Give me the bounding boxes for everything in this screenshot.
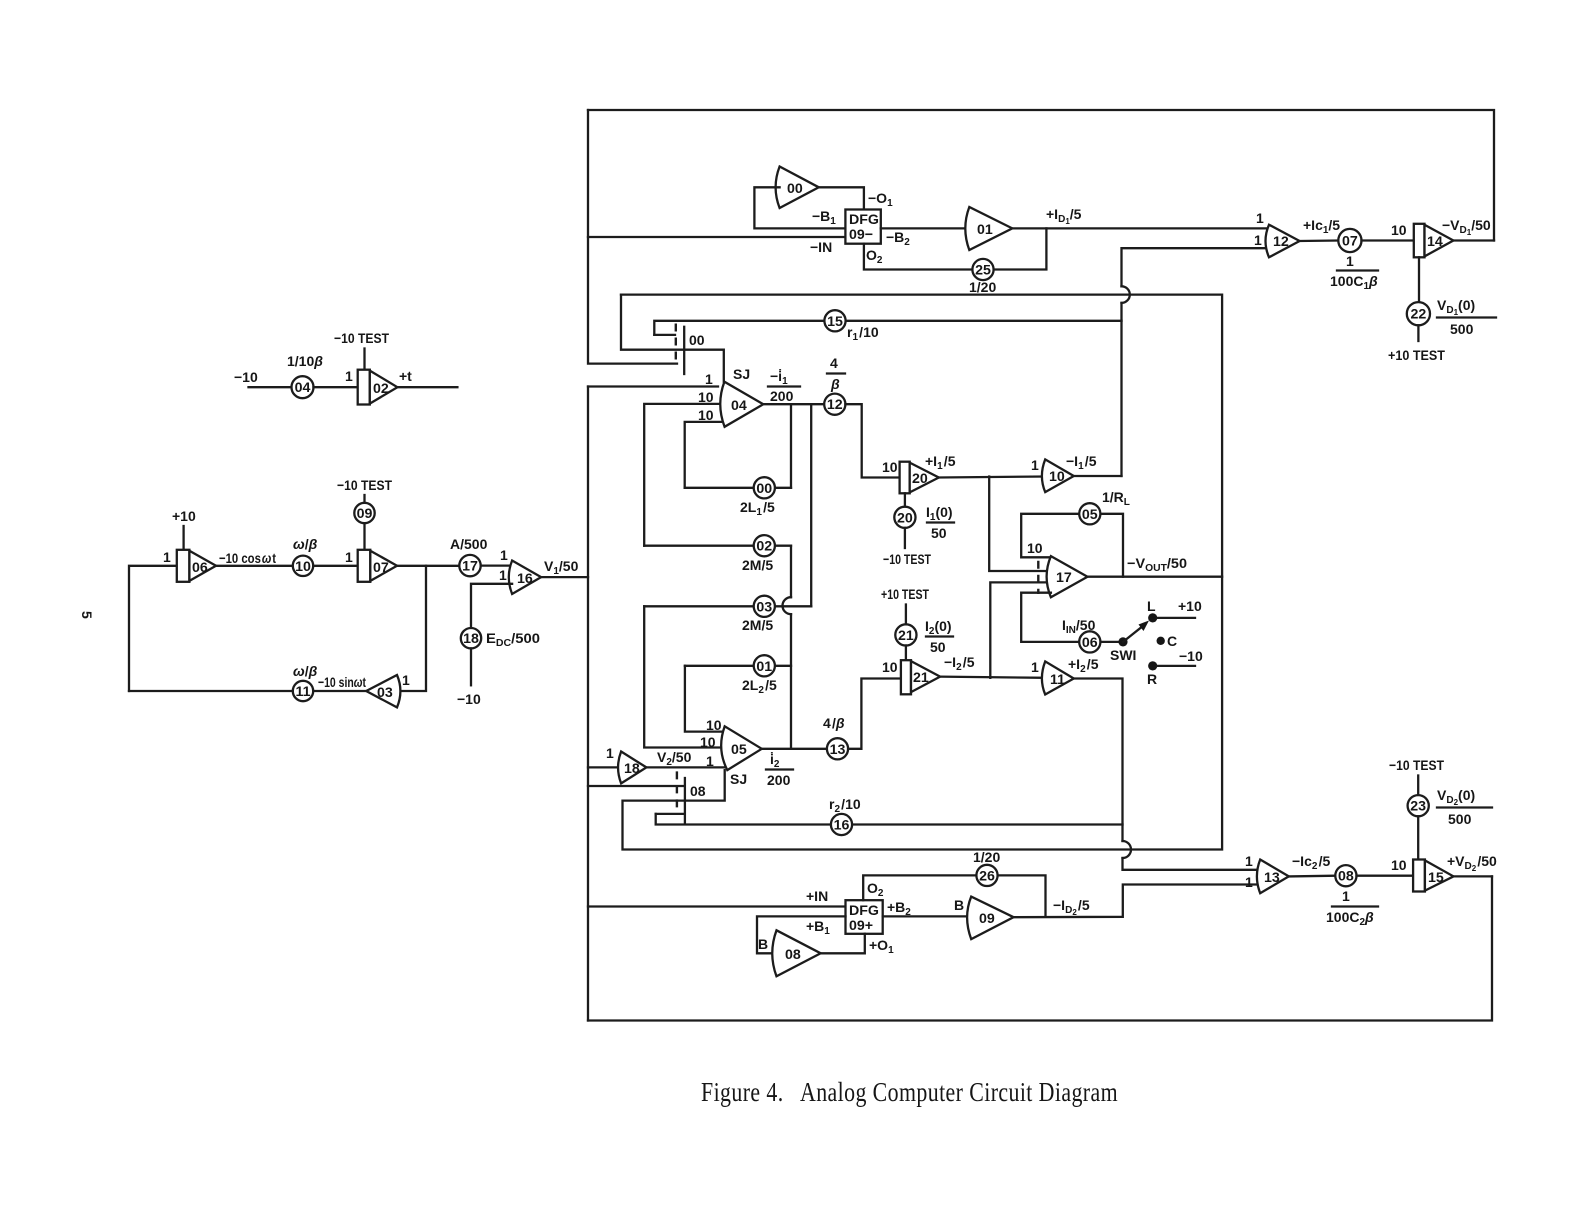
wire comb-08 branch from trunk bbox=[588, 785, 684, 787]
svg-text:−10 TEST: −10 TEST bbox=[334, 330, 389, 346]
svg-text:+10: +10 bbox=[1178, 598, 1202, 614]
amplifier 00 bbox=[776, 167, 819, 209]
integrator 14 bbox=[1414, 224, 1454, 257]
svg-text:25: 25 bbox=[975, 263, 991, 279]
node R throw contact of SW1 (-10) bbox=[1147, 648, 1203, 687]
svg-text:16: 16 bbox=[517, 571, 533, 587]
svg-text:V1/50: V1/50 bbox=[544, 558, 579, 577]
wire integrator 14 IC terminal down to pot 22 bbox=[1418, 257, 1420, 302]
wire DFG +B1 feedback to amp 08 input bbox=[757, 916, 846, 953]
potentiometer 16 (r2/10) bbox=[829, 796, 861, 835]
svg-text:2L2 /5: 2L2 /5 bbox=[742, 677, 777, 696]
svg-text:r2 /10: r2 /10 bbox=[829, 796, 861, 815]
node -10 TEST below pot 20 bbox=[883, 528, 931, 567]
svg-text:1: 1 bbox=[1346, 253, 1354, 269]
potentiometer 06 (I IN/50) bbox=[1062, 617, 1100, 653]
svg-text:06: 06 bbox=[192, 560, 208, 576]
svg-text:+B1: +B1 bbox=[806, 918, 830, 937]
wire left trunk upper segment (V1/50 net, upper) bbox=[588, 110, 677, 364]
svg-text:+I1 /5: +I1 /5 bbox=[925, 453, 956, 472]
svg-text:500: 500 bbox=[1448, 811, 1472, 827]
potentiometer 02 (2M/5) bbox=[644, 535, 791, 573]
svg-text:14: 14 bbox=[1427, 234, 1443, 250]
node -10 sin wt bbox=[313, 674, 366, 691]
svg-text:SWI: SWI bbox=[1110, 647, 1136, 663]
svg-text:+B2: +B2 bbox=[887, 899, 911, 918]
svg-text:50: 50 bbox=[931, 525, 947, 541]
svg-text:1: 1 bbox=[345, 368, 353, 384]
svg-text:21: 21 bbox=[898, 628, 914, 644]
integrator 02 bbox=[345, 368, 397, 405]
node -I2/5 output of integrator 21 to amp 11 bbox=[940, 654, 1045, 678]
node -10 TEST above pot 09 bbox=[337, 477, 392, 503]
svg-text:10: 10 bbox=[295, 559, 311, 575]
node +Ic1/5 output of amp12 bbox=[1300, 217, 1341, 241]
wire amp18 input branch from trunk bbox=[588, 766, 621, 768]
svg-text:1: 1 bbox=[606, 745, 614, 761]
svg-text:−i̇1: −i̇1 bbox=[770, 368, 788, 387]
svg-text:10: 10 bbox=[882, 459, 898, 475]
svg-text:−10: −10 bbox=[457, 691, 481, 707]
node -10 TEST above pot 23 bbox=[1389, 757, 1444, 795]
potentiometer 09 bbox=[354, 503, 374, 550]
svg-text:06: 06 bbox=[1082, 635, 1098, 651]
svg-text:100C2β: 100C2β bbox=[1326, 909, 1374, 928]
wire DFG O2 terminal up through pot 26 to -ID2/5 node bbox=[863, 875, 1045, 916]
potentiometer 26 (1/20) bbox=[973, 849, 1000, 886]
integrator 21 bbox=[882, 659, 940, 694]
svg-text:26: 26 bbox=[979, 868, 995, 884]
amplifier 04 (summing junction SJ) bbox=[698, 366, 763, 427]
svg-text:−VOUT/50: −VOUT/50 bbox=[1127, 555, 1187, 574]
svg-text:B: B bbox=[954, 897, 964, 913]
svg-text:−10 TEST: −10 TEST bbox=[337, 477, 392, 493]
node -ID2/5 output of amp09 to amp13 input 2 bbox=[1014, 885, 1261, 918]
svg-text:09: 09 bbox=[979, 911, 995, 927]
svg-text:1: 1 bbox=[1031, 457, 1039, 473]
svg-text:C: C bbox=[1167, 633, 1177, 649]
svg-text:+t: +t bbox=[399, 368, 412, 384]
amplifier 11 bbox=[1031, 659, 1074, 695]
svg-text:I2(0): I2(0) bbox=[925, 618, 952, 637]
svg-text:08: 08 bbox=[1338, 869, 1354, 885]
wire -IN branch from trunk to top DFG bbox=[588, 236, 845, 238]
svg-text:SJ: SJ bbox=[733, 366, 750, 382]
svg-text:1: 1 bbox=[1254, 232, 1262, 248]
svg-text:1/20: 1/20 bbox=[973, 849, 1000, 865]
amplifier 03 (inverter, points left) bbox=[366, 672, 410, 707]
potentiometer 01 (2L2/5) bbox=[685, 655, 791, 696]
potentiometer 17 (A/500) bbox=[450, 536, 488, 576]
wire feedback loop into integrator 06 bbox=[129, 566, 177, 691]
wire pot11 output back to feedback loop bbox=[129, 690, 293, 692]
svg-text:DFG: DFG bbox=[849, 212, 879, 228]
svg-text:−10 TEST: −10 TEST bbox=[1389, 757, 1444, 773]
wire feedback through pot 25: O2 to output node bbox=[864, 228, 1047, 269]
wire pot17 to amp16 input 1 bbox=[481, 564, 512, 566]
svg-text:1: 1 bbox=[163, 549, 171, 565]
wire amp00 output to DFG -O1 terminal bbox=[819, 187, 893, 209]
wire V-OUT rectangle loop: top edge, right edge, bottom edge, link to SJ05 bbox=[621, 295, 1222, 850]
svg-text:07: 07 bbox=[1342, 234, 1358, 250]
node -I1/5 output of amp 10 bbox=[1066, 453, 1122, 476]
svg-text:+10: +10 bbox=[172, 508, 196, 524]
svg-text:1: 1 bbox=[402, 672, 410, 688]
svg-text:08: 08 bbox=[785, 947, 801, 963]
svg-text:DFG: DFG bbox=[849, 903, 879, 919]
potentiometer 22 (VD1(0)/500) bbox=[1407, 297, 1496, 337]
node +10 TEST above pot 21 bbox=[881, 586, 929, 624]
svg-text:1: 1 bbox=[1342, 888, 1350, 904]
svg-text:+VD2 /50: +VD2 /50 bbox=[1447, 853, 1497, 873]
potentiometer 10 (w/beta) bbox=[293, 536, 318, 576]
svg-text:2M/5: 2M/5 bbox=[742, 557, 773, 573]
svg-text:1: 1 bbox=[705, 371, 713, 387]
wire r2/10 line from comb-08 to +I2/5 vertical bbox=[656, 813, 684, 815]
amplifier 17 (output amplifier) bbox=[1027, 540, 1088, 597]
svg-text:1: 1 bbox=[1245, 853, 1253, 869]
svg-text:O2: O2 bbox=[866, 247, 883, 266]
svg-text:09: 09 bbox=[357, 506, 373, 522]
wire comb-00 feed from rectangle loop down to SJ04 bbox=[621, 295, 724, 382]
potentiometer 07 (1/100C1beta) bbox=[1330, 229, 1378, 292]
svg-text:−B1: −B1 bbox=[812, 208, 836, 227]
node L throw contact of SW1 (+10) bbox=[1147, 598, 1202, 623]
svg-text:10: 10 bbox=[1049, 469, 1065, 485]
svg-text:1/RL: 1/RL bbox=[1102, 489, 1130, 508]
svg-text:00: 00 bbox=[756, 481, 772, 497]
svg-text:+O1: +O1 bbox=[869, 937, 894, 956]
svg-text:00: 00 bbox=[689, 332, 705, 348]
wire bottom border of main loop bbox=[588, 876, 1492, 1020]
potentiometer 25 (1/20) bbox=[969, 259, 996, 295]
svg-text:4: 4 bbox=[830, 355, 838, 371]
wire pot03 output down to SJ05 input 2 bbox=[644, 606, 722, 747]
wire E-DC branch into amp16 input 2 bbox=[471, 584, 512, 628]
wire integrator 07 output branch down to amp 03 bbox=[397, 566, 426, 691]
svg-text:−10 sinωt: −10 sinωt bbox=[318, 674, 366, 690]
switch SW1 pole and arm bbox=[1110, 621, 1149, 664]
svg-text:100C1β: 100C1β bbox=[1330, 273, 1378, 292]
potentiometer 23 (VD2(0)/500) bbox=[1408, 787, 1492, 827]
svg-text:−10 cos ω t: −10 cos ω t bbox=[219, 550, 276, 566]
node -VD1/50 output of integrator 14 to top border bbox=[1442, 217, 1494, 241]
wire -I2/5 branch up to amp17 input 3 bbox=[990, 582, 1051, 677]
svg-text:i̇2: i̇2 bbox=[770, 751, 780, 770]
potentiometer 08 (1/100C2beta) bbox=[1326, 865, 1378, 928]
svg-text:L: L bbox=[1147, 598, 1156, 614]
svg-text:1: 1 bbox=[345, 549, 353, 565]
svg-text:08: 08 bbox=[690, 783, 706, 799]
wire DFG +B2 output to amplifier 09 bbox=[883, 899, 972, 918]
svg-text:1: 1 bbox=[1256, 210, 1264, 226]
svg-text:10: 10 bbox=[698, 407, 714, 423]
svg-text:SJ: SJ bbox=[730, 771, 747, 787]
wire +I1/5 branch down to amp17 input 2 bbox=[989, 477, 1051, 572]
wire SJ04 input 1 branch from trunk bbox=[588, 385, 718, 387]
svg-text:12: 12 bbox=[827, 397, 843, 413]
node i2/200 output of SJ05 bbox=[762, 749, 827, 788]
svg-text:−10: −10 bbox=[234, 369, 258, 385]
svg-text:1: 1 bbox=[706, 753, 714, 769]
wire pot01 output up to SJ05 input 1 bbox=[685, 666, 725, 732]
svg-text:5: 5 bbox=[79, 611, 95, 619]
potentiometer 03 (2M/5) bbox=[644, 596, 811, 633]
svg-text:10: 10 bbox=[706, 717, 722, 733]
node -10 input to pot 04 bbox=[234, 369, 292, 387]
svg-text:05: 05 bbox=[731, 742, 747, 758]
node +10 into integrator 06 bbox=[172, 508, 196, 550]
svg-text:EDC/500: EDC/500 bbox=[486, 630, 540, 649]
svg-text:10: 10 bbox=[1027, 540, 1043, 556]
svg-text:22: 22 bbox=[1411, 307, 1427, 323]
svg-text:1: 1 bbox=[1031, 659, 1039, 675]
amplifier 18 bbox=[606, 745, 646, 783]
amplifier 05 (summing junction SJ) bbox=[700, 717, 762, 787]
amplifier 09 bbox=[954, 897, 1014, 940]
svg-text:05: 05 bbox=[1082, 507, 1098, 523]
svg-text:4 /β: 4 /β bbox=[823, 715, 845, 731]
wire pot13 output to integrator 21 bbox=[848, 679, 901, 749]
svg-text:02: 02 bbox=[756, 539, 772, 555]
wire SJ04 input 2 from pot 02 bbox=[644, 404, 719, 546]
wire pot02/pot01 feed from SJ05 output (hop over pot03 line) bbox=[790, 546, 792, 598]
svg-text:O2: O2 bbox=[867, 880, 884, 899]
svg-text:A/500: A/500 bbox=[450, 536, 488, 552]
potentiometer 04 (1/10 beta) bbox=[287, 353, 323, 398]
svg-text:10: 10 bbox=[882, 659, 898, 675]
node +t output of integrator 02 bbox=[397, 368, 457, 387]
wire -I1/5 rising to amp12 input 2 (hop over loop top edge, junction with r1 line) bbox=[1122, 248, 1270, 286]
node -VOUT/50 output of amp17 to loop right edge bbox=[1088, 555, 1223, 577]
node -10 into pot 18 bbox=[457, 648, 481, 707]
svg-text:11: 11 bbox=[296, 684, 311, 700]
node C throw contact of SW1 bbox=[1157, 633, 1178, 649]
svg-text:11: 11 bbox=[1050, 672, 1065, 688]
integrator 06 bbox=[163, 549, 216, 582]
node +I2/5 output of amp 11 (hop over loop bottom edge, down to amp13) bbox=[1068, 656, 1260, 870]
svg-text:1/10β: 1/10β bbox=[287, 353, 323, 369]
wire pot05 feedback loop from amp17 output to amp17 input 1 bbox=[1100, 514, 1123, 577]
wire left trunk lower segment (V1/50 net) bbox=[587, 387, 589, 1021]
svg-text:+IN: +IN bbox=[806, 888, 828, 904]
svg-text:+10 TEST: +10 TEST bbox=[1388, 347, 1445, 363]
wire SJ04 output branch down to pot 00 bbox=[790, 404, 792, 488]
integrator 20 bbox=[882, 459, 939, 493]
svg-text:20: 20 bbox=[912, 471, 928, 487]
svg-text:B: B bbox=[758, 936, 768, 952]
svg-text:10: 10 bbox=[1391, 857, 1407, 873]
amplifier 12 bbox=[1254, 210, 1300, 257]
svg-text:1: 1 bbox=[499, 567, 507, 583]
svg-text:R: R bbox=[1147, 671, 1157, 687]
svg-text:10: 10 bbox=[700, 734, 716, 750]
wire pot23 down to integrator 15 IC terminal bbox=[1417, 816, 1419, 859]
svg-text:13: 13 bbox=[830, 742, 846, 758]
potentiometer 18 (E DC/500) bbox=[461, 628, 540, 649]
svg-text:500: 500 bbox=[1450, 321, 1474, 337]
svg-text:09+: 09+ bbox=[849, 918, 873, 934]
potentiometer 12 (4/beta) bbox=[824, 355, 845, 415]
svg-text:+Ic1/5: +Ic1/5 bbox=[1303, 217, 1340, 236]
wire top border of main loop bbox=[588, 110, 1494, 241]
svg-text:13: 13 bbox=[1264, 870, 1280, 886]
svg-text:2M/5: 2M/5 bbox=[742, 617, 773, 633]
svg-text:04: 04 bbox=[295, 380, 311, 396]
node V2/50 output of amp18 into SJ05 bbox=[646, 749, 727, 768]
svg-text:04: 04 bbox=[731, 398, 747, 414]
wire SW1 through pot 06 into amp17 input 4 bbox=[1100, 641, 1123, 643]
wire SJ04 input 3 from pot 00 bbox=[685, 422, 721, 488]
svg-text:−VD1/50: −VD1/50 bbox=[1442, 217, 1491, 237]
svg-text:18: 18 bbox=[463, 631, 479, 647]
node comb 08 (patch trunk for SJ05) bbox=[677, 771, 706, 823]
svg-text:10: 10 bbox=[1391, 222, 1407, 238]
amplifier 01 bbox=[965, 207, 1012, 250]
svg-text:2L1 /5: 2L1 /5 bbox=[740, 499, 775, 518]
svg-text:−ID2 /5: −ID2 /5 bbox=[1053, 897, 1090, 917]
DFG 09 (diode function generator) bbox=[845, 210, 880, 244]
amplifier 16 bbox=[499, 547, 541, 594]
svg-text:12: 12 bbox=[1273, 234, 1289, 250]
svg-text:16: 16 bbox=[834, 818, 850, 834]
svg-text:18: 18 bbox=[624, 761, 640, 777]
svg-text:−IN: −IN bbox=[810, 239, 832, 255]
potentiometer 13 (4/beta) bbox=[823, 715, 848, 759]
svg-text:Figure 4. Analog Computer Ci: Figure 4. Analog Computer Circuit Diagra… bbox=[701, 1077, 1118, 1107]
wire pot07 to integrator 14 bbox=[1362, 222, 1414, 241]
svg-text:ω/β: ω/β bbox=[293, 536, 318, 552]
node -10 cos wt bbox=[216, 550, 292, 566]
wire DFG -B2 output to amplifier 01 bbox=[881, 228, 970, 248]
amplifier 10 bbox=[1031, 457, 1074, 492]
node +I1/5 output of integrator 20 to amp 10 bbox=[925, 453, 1045, 478]
svg-text:−10: −10 bbox=[1179, 648, 1203, 664]
svg-text:−Ic2 /5: −Ic2 /5 bbox=[1292, 853, 1330, 872]
potentiometer 00 (2L1/5) bbox=[685, 477, 791, 518]
svg-text:50: 50 bbox=[930, 639, 946, 655]
potentiometer 21 (I2(0)/50) bbox=[895, 618, 953, 660]
svg-text:β: β bbox=[830, 376, 840, 392]
wire DFG -B1 feedback to amp00 input bbox=[754, 187, 845, 228]
svg-text:+ID1/5: +ID1/5 bbox=[1046, 206, 1082, 226]
svg-text:23: 23 bbox=[1410, 799, 1426, 815]
svg-text:01: 01 bbox=[756, 659, 772, 675]
wire amp16 output V1/50 joining trunk bbox=[541, 576, 588, 578]
svg-text:+I2 /5: +I2 /5 bbox=[1068, 656, 1099, 675]
wire r1/10 line from comb-00 to -I1/5 vertical bbox=[654, 321, 1121, 335]
svg-text:VD2(0): VD2(0) bbox=[1437, 787, 1475, 807]
svg-text:−I1 /5: −I1 /5 bbox=[1066, 453, 1097, 472]
svg-text:10: 10 bbox=[698, 389, 714, 405]
node -Ic2/5 output of amp13 bbox=[1289, 853, 1336, 876]
svg-text:−B2: −B2 bbox=[886, 229, 910, 248]
svg-text:21: 21 bbox=[913, 670, 929, 686]
wire pot10 to integrator 07 bbox=[313, 565, 358, 567]
svg-text:01: 01 bbox=[977, 222, 993, 238]
wire amp08 output to DFG +O1 terminal bbox=[821, 934, 894, 956]
node comb 00 (patch trunk for SJ04) bbox=[676, 324, 705, 375]
svg-text:17: 17 bbox=[1056, 570, 1072, 586]
node -i1/200 output of SJ04 bbox=[763, 368, 825, 404]
amplifier 13 bbox=[1245, 853, 1289, 893]
svg-text:20: 20 bbox=[897, 510, 913, 526]
svg-text:−10 TEST: −10 TEST bbox=[883, 551, 931, 567]
node +VD2/50 output of integrator 15 to bottom border bbox=[1447, 853, 1497, 876]
wire pot04 to integrator 02 bbox=[314, 386, 358, 388]
potentiometer 11 (w/beta) bbox=[293, 663, 318, 701]
wire +IN branch from trunk to bottom DFG bbox=[588, 905, 846, 907]
amplifier 08 bbox=[758, 930, 821, 976]
svg-text:V2/50: V2/50 bbox=[657, 749, 692, 768]
svg-text:00: 00 bbox=[787, 181, 803, 197]
svg-text:ω/β: ω/β bbox=[293, 663, 318, 679]
integrator 15 bbox=[1413, 860, 1453, 892]
node +ID1/5 output of amp01 to amp12 input 1 bbox=[1012, 206, 1269, 228]
wire integrator 07 output to pot 17 bbox=[397, 565, 460, 567]
svg-text:+10 TEST: +10 TEST bbox=[881, 586, 929, 602]
svg-text:200: 200 bbox=[767, 772, 791, 788]
integrator 07 bbox=[345, 549, 397, 582]
svg-text:1: 1 bbox=[500, 547, 508, 563]
svg-text:03: 03 bbox=[377, 685, 393, 701]
svg-text:1/20: 1/20 bbox=[969, 279, 996, 295]
svg-text:07: 07 bbox=[373, 560, 389, 576]
svg-text:02: 02 bbox=[373, 381, 389, 397]
potentiometer 05 (1/RL) bbox=[1079, 489, 1130, 524]
svg-text:−O1: −O1 bbox=[868, 190, 893, 209]
svg-text:15: 15 bbox=[1428, 870, 1444, 886]
svg-text:−I2 /5: −I2 /5 bbox=[944, 654, 975, 673]
wire SJ04 output branch down to pot 03 bbox=[810, 404, 812, 606]
svg-text:09−: 09− bbox=[849, 227, 873, 243]
wire pot08 to integrator 15 bbox=[1357, 857, 1414, 876]
svg-text:15: 15 bbox=[827, 314, 843, 330]
node -10 TEST into integrator 02 network bbox=[334, 330, 389, 370]
svg-text:200: 200 bbox=[770, 388, 794, 404]
potentiometer 15 (r1/10) bbox=[824, 310, 878, 343]
svg-text:03: 03 bbox=[756, 599, 772, 615]
DFG 09+ (diode function generator) bbox=[846, 900, 883, 934]
wire pot12 output to integrator 20 bbox=[845, 404, 899, 477]
svg-text:r1 /10: r1 /10 bbox=[847, 324, 879, 343]
node +10 TEST below pot 22 bbox=[1388, 325, 1445, 363]
svg-text:I1(0): I1(0) bbox=[926, 504, 953, 523]
svg-text:1: 1 bbox=[1245, 874, 1253, 890]
svg-text:17: 17 bbox=[462, 559, 478, 575]
potentiometer 20 (I1(0)/50) bbox=[894, 493, 954, 541]
svg-text:VD1(0): VD1(0) bbox=[1437, 297, 1475, 317]
